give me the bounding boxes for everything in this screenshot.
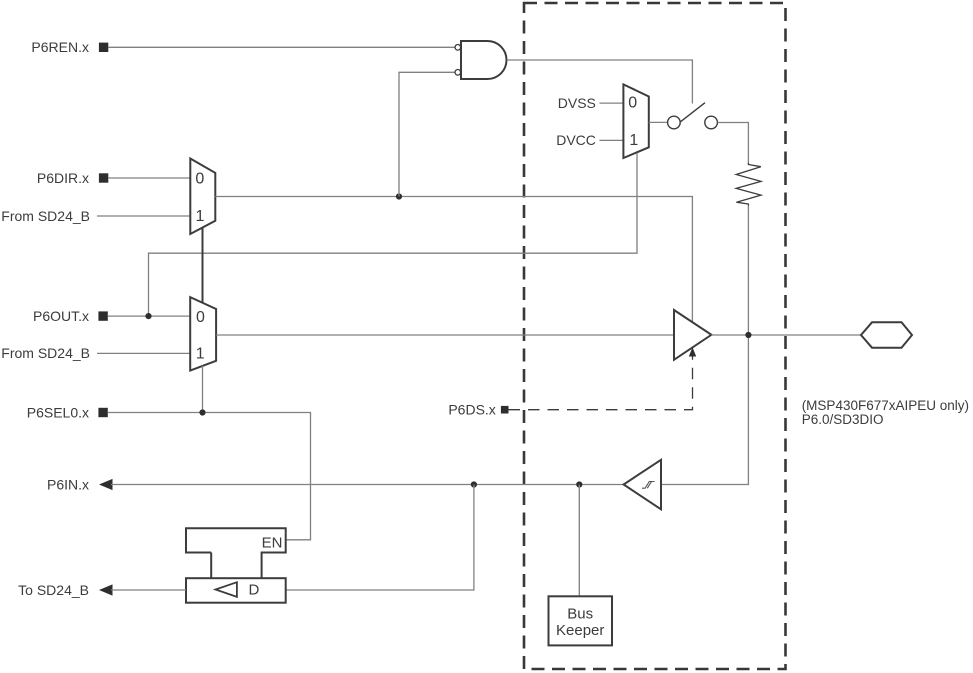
latch U6 body [186,578,286,603]
wire From SD24_B to mux U2 input 1 [97,352,190,354]
svg-text:Bus: Bus [567,605,593,622]
wire mux U2 select down to P6SEL0 [202,366,204,413]
node pad hexagon P6.0/SD3DIO [861,322,912,347]
bus keeper U7 box [549,596,613,645]
wire mux U3 output to switch [649,121,668,123]
svg-text:P6DS.x: P6DS.x [448,402,495,418]
wire mux U2 output to output driver [216,334,674,336]
op-amp U5 schmitt trigger input buffer [624,460,661,510]
svg-text:P6.0/SD3DIO: P6.0/SD3DIO [802,412,884,427]
wire P6SEL0.x across and down to latch EN [108,413,311,540]
dashed device boundary box [524,3,786,669]
svg-text:D: D [248,582,259,599]
node P6REN.x terminal square [99,43,108,52]
wire switch to resistor R1 [718,123,749,163]
svg-text:0: 0 [196,309,205,326]
svg-text:P6SEL0.x: P6SEL0.x [27,404,89,420]
mux U1 (P6DIR select) [190,159,215,235]
node inverting bubble input 1 [455,45,461,51]
svg-text:P6REN.x: P6REN.x [31,39,89,55]
svg-text:1: 1 [629,132,638,149]
wire DVSS to mux U3 input 0 [600,102,624,104]
svg-text:0: 0 [195,170,204,187]
svg-text:Keeper: Keeper [556,622,604,639]
svg-text:EN: EN [262,535,283,552]
svg-text:1: 1 [196,208,205,225]
wire DVCC to mux U3 input 1 [600,139,624,141]
wire resistor R1 to pad node and schmitt input [662,206,749,485]
node P6SEL0.x terminal square [98,408,107,417]
node pad junction [745,332,751,338]
mux U2 (P6OUT select) [190,297,216,371]
node junction to latch D [471,481,477,487]
op-amp U4 output driver triangle [674,310,711,360]
switch S1 right contact [705,116,718,129]
node P6DIR.x terminal square [99,173,108,182]
switch S1 lever [681,103,705,122]
node hysteresis symbol [642,482,655,489]
wire schmitt output to P6IN.x [111,484,624,486]
op-amp G1 AND gate body [461,41,506,79]
wire gate output to switch control [507,60,693,104]
node arrowhead into driver [689,347,696,356]
svg-text:P6OUT.x: P6OUT.x [33,308,89,324]
svg-text:From SD24_B: From SD24_B [1,345,90,361]
svg-text:DVSS: DVSS [558,95,596,111]
wire P6DS.x dashed to driver strength control [509,357,693,410]
node junction to bus keeper [576,481,582,487]
node inverting bubble input 2 [455,70,461,76]
wire From SD24_B to mux U1 input 1 [97,215,190,217]
node P6IN.x arrowhead [99,479,113,490]
svg-text:0: 0 [628,94,637,111]
switch S1 left contact [668,116,681,129]
node junction P6OUT to U3 select [145,313,151,319]
wire mux U1 output to driver enable (down at right) [215,197,692,323]
mux U3 (pull resistor select) [623,84,648,158]
wire latch D input from P6IN junction [286,485,474,591]
svg-text:1: 1 [196,346,205,363]
wire driver output to pad [711,334,861,336]
node junction P6SEL0 to mux selects [199,409,205,415]
svg-text:DVCC: DVCC [556,132,596,148]
wire latch output to To SD24_B [111,589,186,591]
node latch clock triangle [216,582,237,597]
wire P6OUT.x to mux U2 input 0 [108,315,190,317]
wire mux U3 select line down and across to P6OUT junction [149,153,638,316]
node P6OUT.x terminal square [98,311,107,320]
latch U6 enable head outline [186,528,286,578]
wire P6DIR.x to mux U1 input 0 [108,177,190,179]
node junction on U1 output wire [396,193,402,199]
svg-text:To SD24_B: To SD24_B [18,582,89,598]
svg-text:P6IN.x: P6IN.x [47,476,89,492]
node P6DS.x terminal square [501,406,509,414]
wire P6REN.x to gate input 1 [108,46,455,48]
wire bus keeper connection [578,485,580,597]
node To SD24_B arrowhead [99,584,113,595]
wire select chain mux U1 bottom to mux U2 top [202,228,204,303]
resistor R1 [736,163,761,206]
wire junction up to gate input 2 [399,72,455,196]
svg-text:(MSP430F677xAIPEU only): (MSP430F677xAIPEU only) [802,398,969,413]
svg-text:P6DIR.x: P6DIR.x [37,170,89,186]
svg-text:From SD24_B: From SD24_B [1,208,90,224]
